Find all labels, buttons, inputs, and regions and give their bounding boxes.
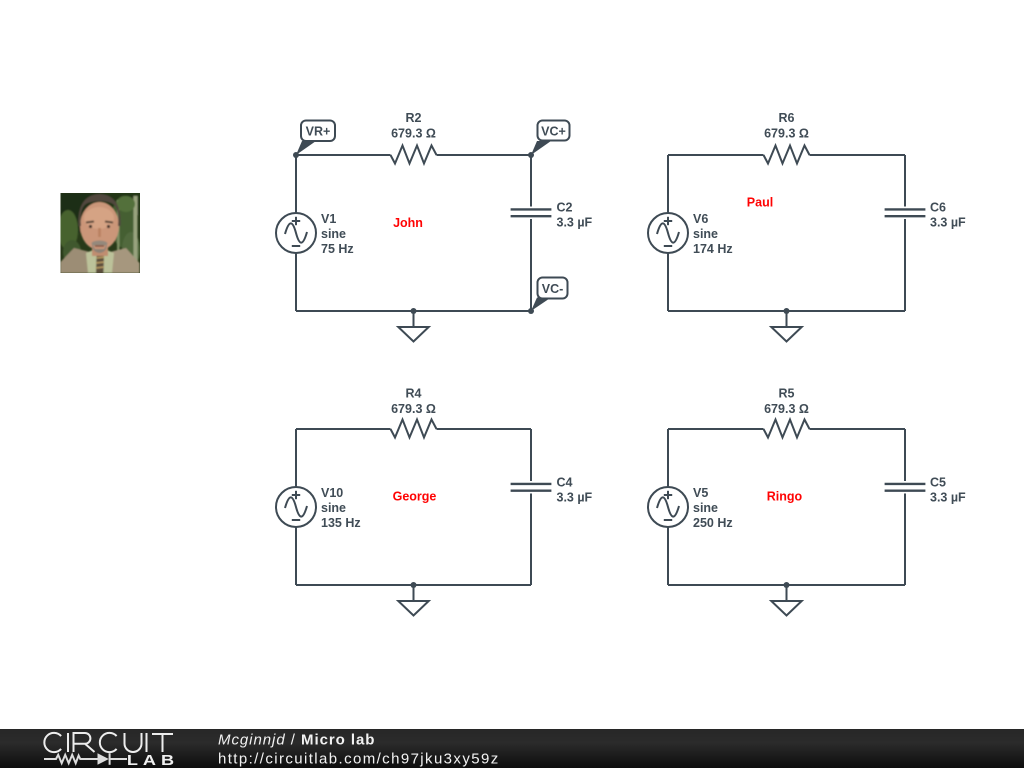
wire right upper bbox=[530, 429, 532, 481]
svg-text:V5: V5 bbox=[693, 486, 708, 500]
svg-text:R2: R2 bbox=[406, 111, 422, 125]
wire left lower bbox=[295, 527, 297, 585]
resistor R2 bbox=[391, 146, 437, 164]
wire bottom bbox=[668, 584, 905, 586]
ground bbox=[398, 582, 428, 616]
svg-text:Ringo: Ringo bbox=[767, 490, 803, 504]
capacitor C5 bbox=[885, 484, 926, 491]
wire top-left segment bbox=[296, 154, 391, 156]
svg-text:C6: C6 bbox=[930, 201, 946, 215]
voltage source V1 bbox=[276, 213, 316, 253]
mustache goatee bbox=[92, 241, 108, 247]
svg-text:250 Hz: 250 Hz bbox=[693, 516, 733, 530]
svg-text:Paul: Paul bbox=[747, 196, 773, 210]
svg-text:R6: R6 bbox=[779, 111, 795, 125]
svg-text:C2: C2 bbox=[557, 201, 573, 215]
svg-text:VC+: VC+ bbox=[541, 125, 566, 139]
wire right lower bbox=[530, 219, 532, 311]
resistor R5 bbox=[764, 420, 810, 438]
wire right lower bbox=[530, 494, 532, 586]
wire top-right segment bbox=[437, 154, 532, 156]
svg-text:679.3 Ω: 679.3 Ω bbox=[764, 127, 809, 141]
svg-text:3.3 µF: 3.3 µF bbox=[557, 491, 593, 505]
label C4 bbox=[557, 476, 593, 505]
label C5 bbox=[930, 476, 966, 505]
svg-text:sine: sine bbox=[321, 227, 346, 241]
label R4 value bbox=[391, 387, 436, 417]
svg-text:sine: sine bbox=[321, 501, 346, 515]
ground bbox=[771, 582, 801, 616]
wire top-left segment bbox=[296, 428, 391, 430]
wire bottom bbox=[296, 310, 531, 312]
footer bar bbox=[0, 729, 1024, 768]
svg-text:George: George bbox=[393, 490, 437, 504]
ground bbox=[771, 308, 801, 342]
wire top-left segment bbox=[668, 428, 764, 430]
wire left upper bbox=[295, 155, 297, 213]
wire top-right segment bbox=[810, 428, 906, 430]
wire left lower bbox=[667, 527, 669, 585]
svg-text:V10: V10 bbox=[321, 486, 343, 500]
shirt bbox=[86, 247, 114, 273]
wire bottom bbox=[668, 310, 905, 312]
resistor R6 bbox=[764, 146, 810, 164]
svg-text:http://circuitlab.com/ch97jku3: http://circuitlab.com/ch97jku3xy59z bbox=[218, 751, 500, 768]
ground bbox=[398, 308, 428, 342]
wire left lower bbox=[295, 253, 297, 311]
wire right lower bbox=[904, 219, 906, 311]
node flag VR+ bbox=[293, 121, 335, 159]
svg-text:R5: R5 bbox=[779, 387, 795, 401]
svg-text:3.3 µF: 3.3 µF bbox=[930, 491, 966, 505]
svg-text:V6: V6 bbox=[693, 212, 708, 226]
svg-text:679.3 Ω: 679.3 Ω bbox=[391, 402, 436, 416]
tie bbox=[96, 256, 104, 274]
hair bbox=[78, 194, 120, 226]
capacitor C2 bbox=[511, 209, 552, 216]
label C2 bbox=[557, 201, 593, 230]
wire top-right segment bbox=[810, 154, 906, 156]
svg-text:679.3 Ω: 679.3 Ω bbox=[391, 127, 436, 141]
svg-text:VR+: VR+ bbox=[306, 125, 331, 139]
node flag VC- bbox=[528, 278, 568, 315]
resistor R4 bbox=[391, 420, 437, 438]
wire right upper bbox=[904, 429, 906, 481]
voltage source V5 bbox=[648, 487, 688, 527]
svg-text:3.3 µF: 3.3 µF bbox=[930, 216, 966, 230]
label V1 bbox=[321, 212, 354, 256]
CircuitLab logo wordmark CIRCUIT bbox=[44, 733, 173, 752]
svg-text:John: John bbox=[393, 216, 423, 230]
svg-text:LAB: LAB bbox=[127, 753, 179, 768]
svg-text:135 Hz: 135 Hz bbox=[321, 516, 361, 530]
svg-text:R4: R4 bbox=[406, 387, 422, 401]
wire left upper bbox=[295, 429, 297, 487]
svg-text:C4: C4 bbox=[557, 476, 573, 490]
svg-text:sine: sine bbox=[693, 501, 718, 515]
voltage source V10 bbox=[276, 487, 316, 527]
label R2 value bbox=[391, 111, 436, 141]
svg-text:sine: sine bbox=[693, 227, 718, 241]
svg-text:Mcginnjd / Micro lab: Mcginnjd / Micro lab bbox=[218, 732, 375, 749]
wire left upper bbox=[667, 429, 669, 487]
label C6 bbox=[930, 201, 966, 230]
wire right upper bbox=[530, 155, 532, 207]
CircuitLab logo symbol (resistor + diode) bbox=[44, 753, 127, 765]
wire bottom bbox=[296, 584, 531, 586]
label R6 value bbox=[764, 111, 809, 141]
svg-text:V1: V1 bbox=[321, 212, 336, 226]
label V6 bbox=[693, 212, 733, 256]
nose bbox=[98, 228, 101, 237]
voltage source V6 bbox=[648, 213, 688, 253]
svg-text:679.3 Ω: 679.3 Ω bbox=[764, 402, 809, 416]
wire right lower bbox=[904, 494, 906, 586]
capacitor C4 bbox=[511, 484, 552, 491]
neck bbox=[92, 240, 108, 256]
wire left upper bbox=[667, 155, 669, 213]
label V5 bbox=[693, 486, 733, 530]
capacitor C6 bbox=[885, 209, 926, 216]
wire right upper bbox=[904, 155, 906, 207]
wire top-left segment bbox=[668, 154, 764, 156]
node flag VC+ bbox=[528, 121, 570, 159]
svg-text:75 Hz: 75 Hz bbox=[321, 242, 354, 256]
label R5 value bbox=[764, 387, 809, 417]
label V10 bbox=[321, 486, 361, 530]
eyes and brows bbox=[86, 222, 113, 223]
svg-text:174 Hz: 174 Hz bbox=[693, 242, 733, 256]
shoulders / suit bbox=[61, 248, 93, 273]
wire left lower bbox=[667, 253, 669, 311]
head bbox=[80, 202, 119, 250]
svg-text:3.3 µF: 3.3 µF bbox=[557, 216, 593, 230]
wire top-right segment bbox=[437, 428, 532, 430]
svg-text:VC-: VC- bbox=[542, 282, 564, 296]
svg-text:C5: C5 bbox=[930, 476, 946, 490]
